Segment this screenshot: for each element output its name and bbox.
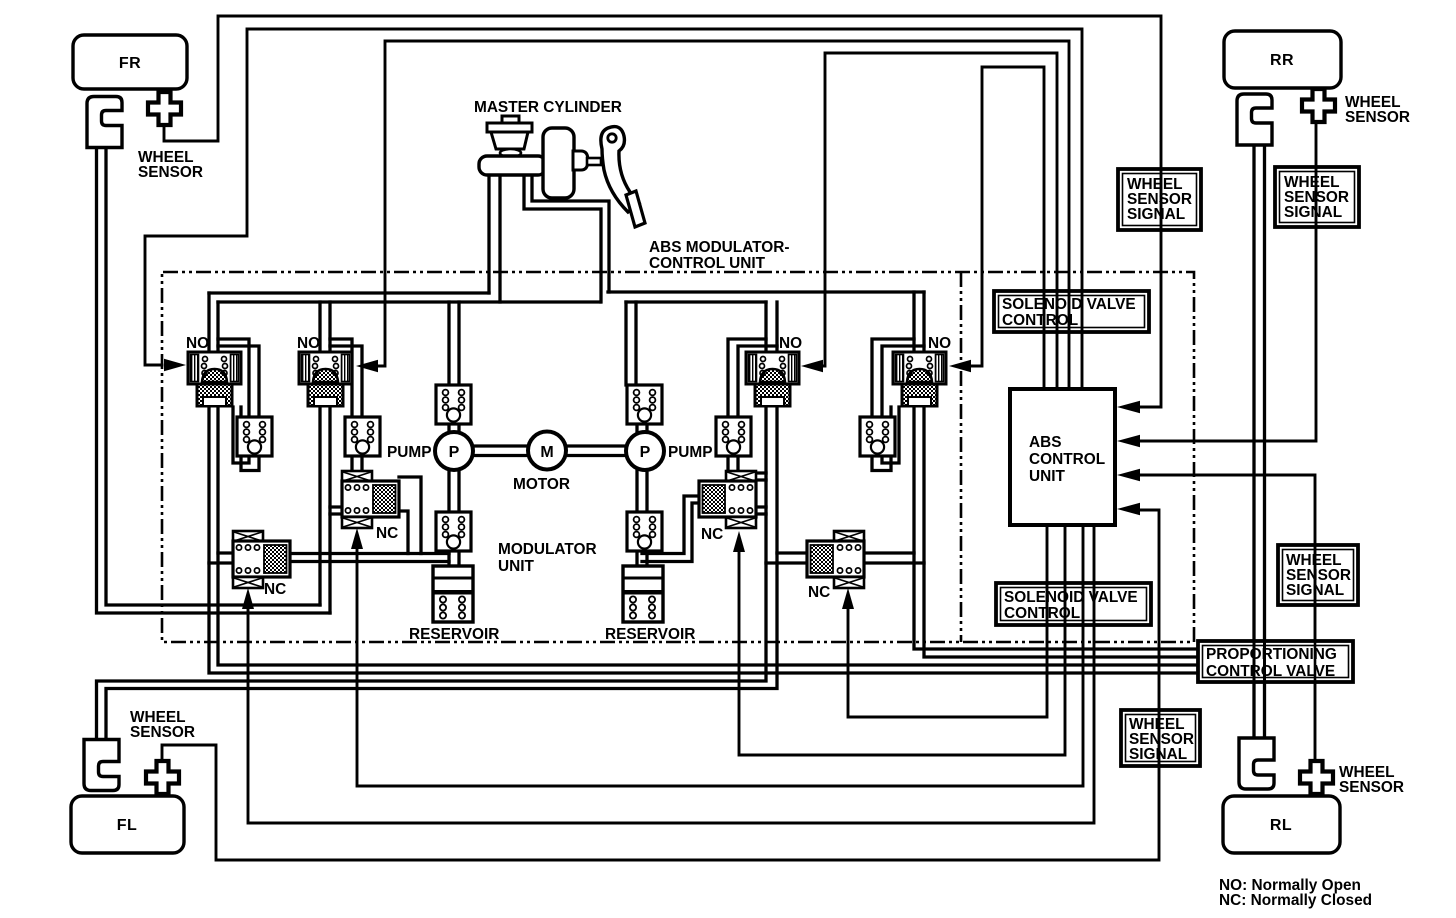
svg-text:CONTROL: CONTROL: [1004, 605, 1080, 622]
caliper RR: [1237, 94, 1272, 145]
svg-text:SOLENOID VALVE: SOLENOID VALVE: [1004, 589, 1138, 606]
wheel sensor signal box RL: [1278, 545, 1358, 605]
reservoir 2: [623, 566, 663, 622]
wires through solenoid valve control box top: [1044, 291, 1082, 332]
pump 2 outlet damper: [627, 512, 662, 551]
svg-text:CONTROL: CONTROL: [1029, 451, 1105, 468]
pipe: NC right-outer valve right ports to rail: [864, 553, 924, 563]
svg-text:NC: NC: [376, 525, 398, 542]
NC valve left-inner (mirrored): [342, 471, 399, 528]
svg-text:SIGNAL: SIGNAL: [1284, 204, 1342, 221]
wheel sensor cross FL: [146, 761, 179, 794]
solenoid valve control box top: [994, 291, 1149, 332]
svg-text:NO: NO: [297, 335, 320, 352]
caliper FL (stem on top): [84, 740, 119, 791]
svg-text:MOTOR: MOTOR: [513, 476, 570, 493]
svg-text:FR: FR: [119, 55, 141, 72]
svg-text:PUMP: PUMP: [668, 444, 712, 461]
svg-text:CONTROL VALVE: CONTROL VALVE: [1206, 663, 1335, 680]
NO valve 4: [893, 352, 946, 406]
pipe: top distribution rail right: [608, 292, 924, 302]
svg-text:SENSOR: SENSOR: [130, 724, 195, 741]
pipe: check valve 2 top connection: [330, 339, 362, 417]
wheel sensor cross FR: [148, 92, 181, 125]
pipe: drop to pump 2 damper: [626, 302, 636, 385]
check valve for NO valve 1: [237, 417, 272, 456]
wire FR wheel sensor signal: [164, 16, 1161, 407]
check valve for NO valve 3: [716, 417, 751, 456]
svg-text:NC: NC: [808, 584, 830, 601]
arrow into NO valve 2: [356, 360, 378, 372]
svg-text:RESERVOIR: RESERVOIR: [409, 626, 499, 643]
master cylinder U1: [479, 116, 645, 227]
wires through solenoid valve control box bottom: [1047, 583, 1094, 625]
arrow into NC valve left-outer: [242, 588, 254, 609]
pipe: right rail down to proportioning line: [914, 292, 1198, 657]
pipe: top distribution rail left: [209, 293, 600, 302]
pump 1 outlet damper: [436, 512, 471, 551]
reservoir cap: [502, 116, 519, 124]
arrow into ABS control unit (RL signal): [1117, 469, 1140, 482]
motor M1: [528, 432, 566, 470]
svg-text:M: M: [540, 444, 553, 461]
pipe: NC left-outer valve left ports to rail: [209, 553, 233, 563]
cylinder body: [479, 156, 546, 175]
pipe: rear brake line RR to RL through proportioning valve: [1254, 145, 1265, 738]
pipe: master cylinder left outlet: [489, 168, 500, 302]
wheel sensor signal box RR: [1275, 167, 1359, 227]
rear brake pipes passing through box: [1254, 641, 1265, 682]
node RL wheel: [1223, 796, 1340, 853]
pump 2 inlet damper: [627, 385, 662, 424]
motor shaft to pump 2: [566, 446, 626, 456]
node FL wheel: [71, 796, 184, 853]
arrow into NC valve right-outer: [842, 588, 854, 609]
NO valve 2: [299, 352, 352, 406]
svg-text:NO: NO: [186, 335, 209, 352]
pedal arm and pad: [601, 127, 639, 212]
wheel sensor signal box FL: [1121, 710, 1200, 766]
pipe: reservoir 1 top line: [290, 554, 449, 562]
pipe: check valve 1 top connection: [218, 339, 259, 417]
svg-text:PROPORTIONING: PROPORTIONING: [1206, 646, 1337, 663]
svg-text:RESERVOIR: RESERVOIR: [605, 626, 695, 643]
svg-text:FL: FL: [117, 817, 138, 834]
svg-text:P: P: [449, 444, 460, 461]
pipe: check valve 3 top connection: [728, 339, 777, 417]
NC valve left-outer (mirrored): [233, 531, 290, 588]
pipe: check valve 4 top connection: [872, 339, 924, 417]
wire FL wheel sensor signal: [162, 510, 1159, 860]
svg-text:NO: NO: [928, 335, 951, 352]
pipe: check valve 3 to NC center valve spring: [728, 456, 738, 471]
pipe: master cylinder right outlet: [524, 170, 609, 302]
wire segments passing through boxes: [1044, 167, 1316, 766]
svg-text:MODULATOR: MODULATOR: [498, 541, 597, 558]
pipe: check valve 2 to NC left-inner valve spring: [352, 456, 362, 471]
svg-text:UNIT: UNIT: [498, 558, 535, 575]
svg-text:P: P: [640, 444, 651, 461]
wire solenoid control to NC valve right-outer: [848, 525, 1047, 717]
pipe: drop to NO valve 2: [320, 302, 330, 352]
node FR wheel: [73, 35, 187, 89]
NC valve right-outer: [807, 531, 864, 588]
check valve for NO valve 2: [345, 417, 380, 456]
svg-text:ABS MODULATOR-: ABS MODULATOR-: [649, 239, 790, 256]
caliper FR: [87, 97, 122, 148]
pipe: FR caliper line down and across to NO valve 2 stem: [97, 147, 331, 613]
pipe: NO valve 2 lower stem down to FR line: [320, 406, 330, 613]
ABS modulator-control unit dashed boundary: [162, 272, 1194, 642]
NO valve 1: [188, 352, 241, 406]
svg-text:CONTROL UNIT: CONTROL UNIT: [649, 255, 766, 272]
pipe: pump 1 necks and reservoir stem: [449, 424, 459, 566]
arrow into NO valve 1: [164, 359, 186, 371]
pipe: NC center valve left ports to reservoir 2: [642, 496, 699, 562]
arrow into NC valve center: [733, 531, 745, 552]
wire through wheel sensor signal box FR: [1160, 169, 1163, 230]
pipe: drop to pump 1 damper: [449, 302, 459, 385]
pump P1: [435, 432, 473, 470]
wire solenoid control to NC valve left-inner: [357, 525, 1083, 786]
pipe: pump 2 necks and reservoir stem: [637, 424, 647, 566]
pushrod: [587, 158, 601, 165]
svg-text:MASTER CYLINDER: MASTER CYLINDER: [474, 99, 622, 116]
wire solenoid control to NC valve center: [739, 525, 1065, 755]
check valve for NO valve 4: [860, 417, 895, 456]
arrow into ABS control unit (FR signal): [1117, 401, 1140, 414]
caliper RL (stem on top): [1239, 738, 1274, 789]
arrow into NO valve 3: [801, 360, 823, 372]
NO valve 3: [746, 352, 799, 406]
NC valve center: [699, 471, 756, 528]
pump P2: [626, 432, 664, 470]
wire solenoid control to NO valve 1: [145, 29, 1082, 389]
wire RR wheel sensor signal: [1140, 122, 1316, 441]
svg-text:SENSOR: SENSOR: [1339, 779, 1404, 796]
pipe: NC left-inner valve left port stubs: [330, 507, 342, 514]
reservoir 1: [433, 566, 473, 622]
wire through wheel sensor signal box RR: [1315, 167, 1318, 227]
solenoid valve control box bottom: [996, 583, 1151, 625]
proportioning control valve box: [1198, 641, 1353, 682]
svg-text:NC: Normally Closed: NC: Normally Closed: [1219, 892, 1372, 909]
pipe: NC center valve right ports to column: [756, 473, 766, 514]
motor shaft to pump 1: [473, 446, 528, 456]
pipe: NC right-outer valve left ports: [766, 553, 807, 563]
svg-text:SIGNAL: SIGNAL: [1127, 206, 1185, 223]
wheel sensor cross RR: [1302, 89, 1335, 122]
svg-text:ABS: ABS: [1029, 434, 1062, 451]
svg-text:RR: RR: [1270, 52, 1294, 69]
svg-text:NC: NC: [701, 526, 723, 543]
booster nose: [573, 151, 588, 170]
pump 1 inlet damper: [436, 385, 471, 424]
wire RL wheel sensor signal: [1140, 475, 1315, 762]
wheel sensor signal box FR: [1118, 169, 1201, 230]
svg-text:RL: RL: [1270, 817, 1292, 834]
pipe: check valve 1 bottom bypass: [233, 407, 259, 471]
arrow into ABS control unit (RR signal): [1117, 435, 1140, 448]
pipe: NO valve 3 column down and across to FL caliper: [97, 302, 778, 740]
node RR wheel: [1224, 31, 1341, 88]
svg-text:NC: NC: [264, 581, 286, 598]
wire solenoid control to NO valve 4: [972, 67, 1044, 389]
arrow into NC valve left-inner: [351, 528, 363, 549]
wire through wheel sensor signal box FL: [1158, 710, 1161, 766]
wire through wheel sensor signal box RL: [1314, 545, 1317, 605]
pipe: left rail down to proportioning line: [209, 293, 1198, 673]
ABS control unit U2: [1010, 389, 1115, 525]
wire solenoid control to NO valve 3: [824, 53, 1057, 389]
wheel sensor cross RL: [1300, 761, 1333, 794]
pipe: NC left-inner valve right ports loop: [399, 477, 421, 554]
svg-text:SENSOR: SENSOR: [138, 164, 203, 181]
svg-text:UNIT: UNIT: [1029, 468, 1066, 485]
svg-text:SENSOR: SENSOR: [1345, 109, 1410, 126]
wire solenoid control to NO valve 2: [379, 41, 1069, 389]
svg-text:PUMP: PUMP: [387, 444, 431, 461]
svg-text:NO: NO: [779, 335, 802, 352]
arrow into ABS control unit (FL signal): [1117, 503, 1140, 516]
booster: [543, 128, 574, 198]
dashed divider between modulator unit and ABS control unit: [960, 272, 963, 642]
wire solenoid control to NC valve left-outer: [248, 525, 1094, 823]
svg-text:CONTROL: CONTROL: [1002, 312, 1078, 329]
pipe: check valve 4 bottom bypass: [872, 407, 899, 471]
arrow into NO valve 4: [949, 360, 971, 372]
reservoir body: [491, 132, 528, 149]
